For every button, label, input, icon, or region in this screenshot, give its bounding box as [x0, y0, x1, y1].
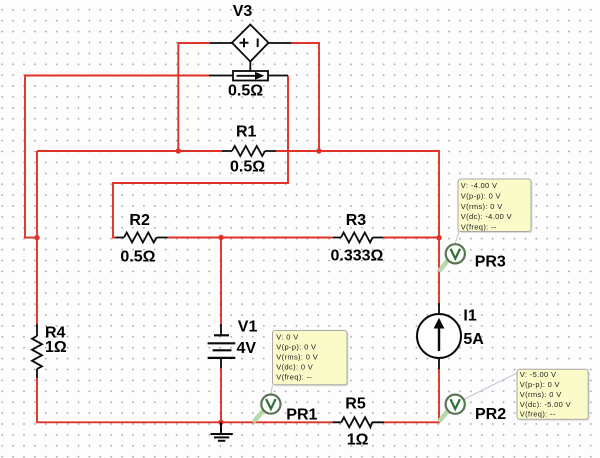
svg-text:R1: R1 — [236, 123, 257, 140]
svg-text:R3: R3 — [346, 212, 367, 229]
svg-text:V: -5.00 V: V: -5.00 V — [520, 370, 557, 379]
svg-text:0.5Ω: 0.5Ω — [228, 83, 263, 100]
svg-text:0.333Ω: 0.333Ω — [331, 248, 384, 265]
svg-text:V(dc): -5.00 V: V(dc): -5.00 V — [520, 400, 571, 409]
svg-text:V(freq): --: V(freq): -- — [520, 410, 556, 419]
svg-text:5A: 5A — [463, 331, 484, 348]
svg-text:V3: V3 — [233, 3, 253, 20]
svg-text:V: 0 V: V: 0 V — [276, 332, 298, 341]
svg-text:V: -4.00 V: V: -4.00 V — [461, 181, 498, 190]
svg-text:R2: R2 — [129, 212, 150, 229]
svg-text:PR3: PR3 — [475, 254, 506, 271]
svg-text:R5: R5 — [345, 396, 366, 413]
svg-text:V(p-p): 0 V: V(p-p): 0 V — [276, 342, 316, 351]
svg-text:V(p-p): 0 V: V(p-p): 0 V — [520, 380, 560, 389]
svg-text:V(rms): 0 V: V(rms): 0 V — [461, 202, 503, 211]
svg-text:V(p-p): 0 V: V(p-p): 0 V — [461, 191, 501, 200]
svg-text:V(freq): --: V(freq): -- — [276, 373, 312, 382]
svg-text:V(rms): 0 V: V(rms): 0 V — [276, 352, 318, 361]
svg-text:0.5Ω: 0.5Ω — [120, 249, 155, 266]
svg-text:V(dc): -4.00 V: V(dc): -4.00 V — [461, 212, 512, 221]
svg-text:V(dc): 0 V: V(dc): 0 V — [276, 362, 313, 371]
svg-text:I1: I1 — [463, 308, 476, 325]
svg-text:V(rms): 0 V: V(rms): 0 V — [520, 390, 562, 399]
svg-text:4V: 4V — [237, 340, 257, 357]
svg-text:PR1: PR1 — [286, 407, 317, 424]
svg-text:V1: V1 — [238, 319, 258, 336]
svg-text:PR2: PR2 — [475, 406, 506, 423]
svg-text:0.5Ω: 0.5Ω — [230, 158, 265, 175]
svg-text:1Ω: 1Ω — [45, 339, 67, 356]
svg-text:V(freq): --: V(freq): -- — [461, 223, 497, 232]
svg-text:1Ω: 1Ω — [347, 432, 369, 449]
